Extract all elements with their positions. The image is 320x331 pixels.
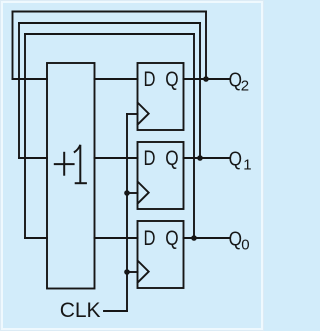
svg-text:D: D	[144, 147, 156, 170]
svg-text:Q: Q	[165, 68, 178, 91]
wire: feedback Q1 into incrementer input	[19, 157, 47, 159]
junction dot clock to FF3	[124, 269, 130, 275]
label +1 digit one	[74, 145, 87, 183]
wire: feedback Q0 to incrementer (right vertical)	[193, 34, 195, 238]
flip-flop 3 clock triangle	[138, 261, 149, 283]
wire: clock branch to FF3	[127, 271, 138, 273]
junction dot clock to FF2	[124, 190, 130, 196]
svg-text:CLK: CLK	[60, 299, 101, 322]
flip-flop 2 (Q1) box	[138, 142, 184, 209]
svg-text:2: 2	[241, 77, 249, 94]
svg-text:Q: Q	[165, 147, 178, 170]
wire: incrementer output to D of FF3	[95, 237, 138, 239]
wire: feedback Q2 left vertical	[12, 12, 14, 80]
wire: feedback Q2 top horizontal	[13, 11, 207, 13]
wire: feedback Q0 top horizontal	[25, 33, 194, 35]
wire: Q output of FF3 to node Q0	[184, 237, 230, 239]
svg-text:Q: Q	[229, 229, 242, 251]
wire: incrementer output to D of FF2	[95, 157, 138, 159]
wire: feedback Q0 left vertical	[24, 34, 26, 238]
svg-text:D: D	[144, 227, 156, 250]
wire: Q output of FF1 to node Q2	[184, 78, 230, 80]
flip-flop 1 (Q2) box	[138, 63, 184, 130]
wire: feedback Q1 to incrementer (right vertical)	[199, 23, 201, 158]
wire: clock branch to FF2	[127, 192, 138, 194]
svg-text:Q: Q	[165, 227, 178, 250]
wire: Q output of FF2 to node Q1	[184, 157, 230, 159]
junction dot node Q0	[191, 235, 197, 241]
wire: clock trunk vertical	[126, 114, 128, 311]
wire: feedback Q1 top horizontal	[19, 22, 200, 24]
wire: CLK input horizontal	[104, 310, 127, 312]
svg-text:D: D	[144, 68, 156, 91]
wire: clock branch to FF1	[127, 113, 138, 115]
svg-text:0: 0	[241, 236, 249, 253]
label +1 plus sign	[54, 152, 75, 176]
wire: feedback Q2 into incrementer input	[13, 78, 48, 80]
flip-flop 1 clock triangle	[138, 103, 149, 125]
wire: feedback Q2 to incrementer (right vertical)	[205, 12, 207, 80]
svg-text:Q: Q	[229, 149, 242, 171]
junction dot node Q2	[203, 76, 209, 82]
flip-flop 2 clock triangle	[138, 182, 149, 204]
wire: incrementer output to D of FF1	[95, 78, 138, 80]
junction dot node Q1	[197, 155, 203, 161]
incrementer block +1	[47, 63, 95, 289]
wire: feedback Q0 into incrementer input	[25, 237, 47, 239]
flip-flop 3 (Q0) box	[138, 221, 184, 288]
svg-text:1: 1	[243, 156, 251, 173]
wire: feedback Q1 left vertical	[18, 23, 20, 158]
